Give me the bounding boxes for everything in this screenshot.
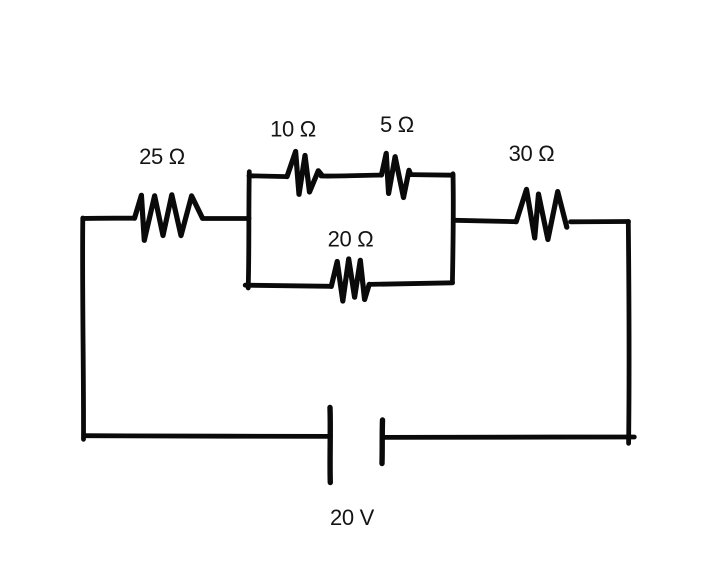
svg-text:20 V: 20 V xyxy=(330,505,375,530)
svg-text:20 Ω: 20 Ω xyxy=(328,227,374,252)
svg-text:30 Ω: 30 Ω xyxy=(509,141,555,166)
svg-text:10 Ω: 10 Ω xyxy=(270,117,316,142)
svg-text:5 Ω: 5 Ω xyxy=(380,112,414,137)
svg-text:25 Ω: 25 Ω xyxy=(139,144,185,169)
